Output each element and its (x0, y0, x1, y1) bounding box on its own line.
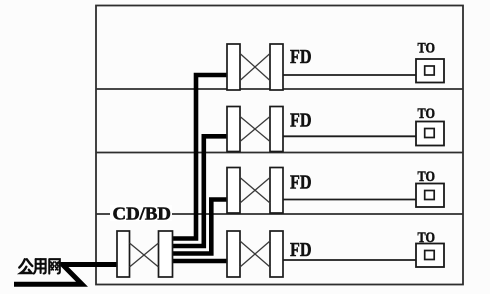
svg-text:TO: TO (418, 41, 436, 57)
svg-text:FD: FD (290, 46, 312, 68)
svg-text:FD: FD (290, 110, 312, 132)
svg-text:FD: FD (290, 172, 312, 194)
svg-text:FD: FD (290, 239, 312, 261)
svg-text:TO: TO (418, 106, 436, 122)
svg-text:TO: TO (418, 169, 436, 185)
svg-text:CD/BD: CD/BD (113, 204, 172, 224)
svg-text:TO: TO (418, 230, 436, 246)
